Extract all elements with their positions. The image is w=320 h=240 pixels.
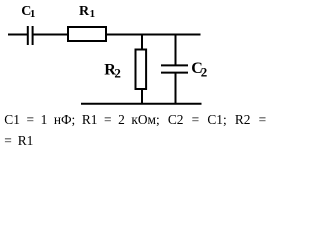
svg-text:2: 2 bbox=[114, 65, 121, 80]
svg-text:1: 1 bbox=[90, 8, 96, 20]
svg-text:R: R bbox=[79, 4, 90, 19]
svg-text:1: 1 bbox=[30, 8, 36, 20]
svg-text:2: 2 bbox=[201, 64, 208, 79]
